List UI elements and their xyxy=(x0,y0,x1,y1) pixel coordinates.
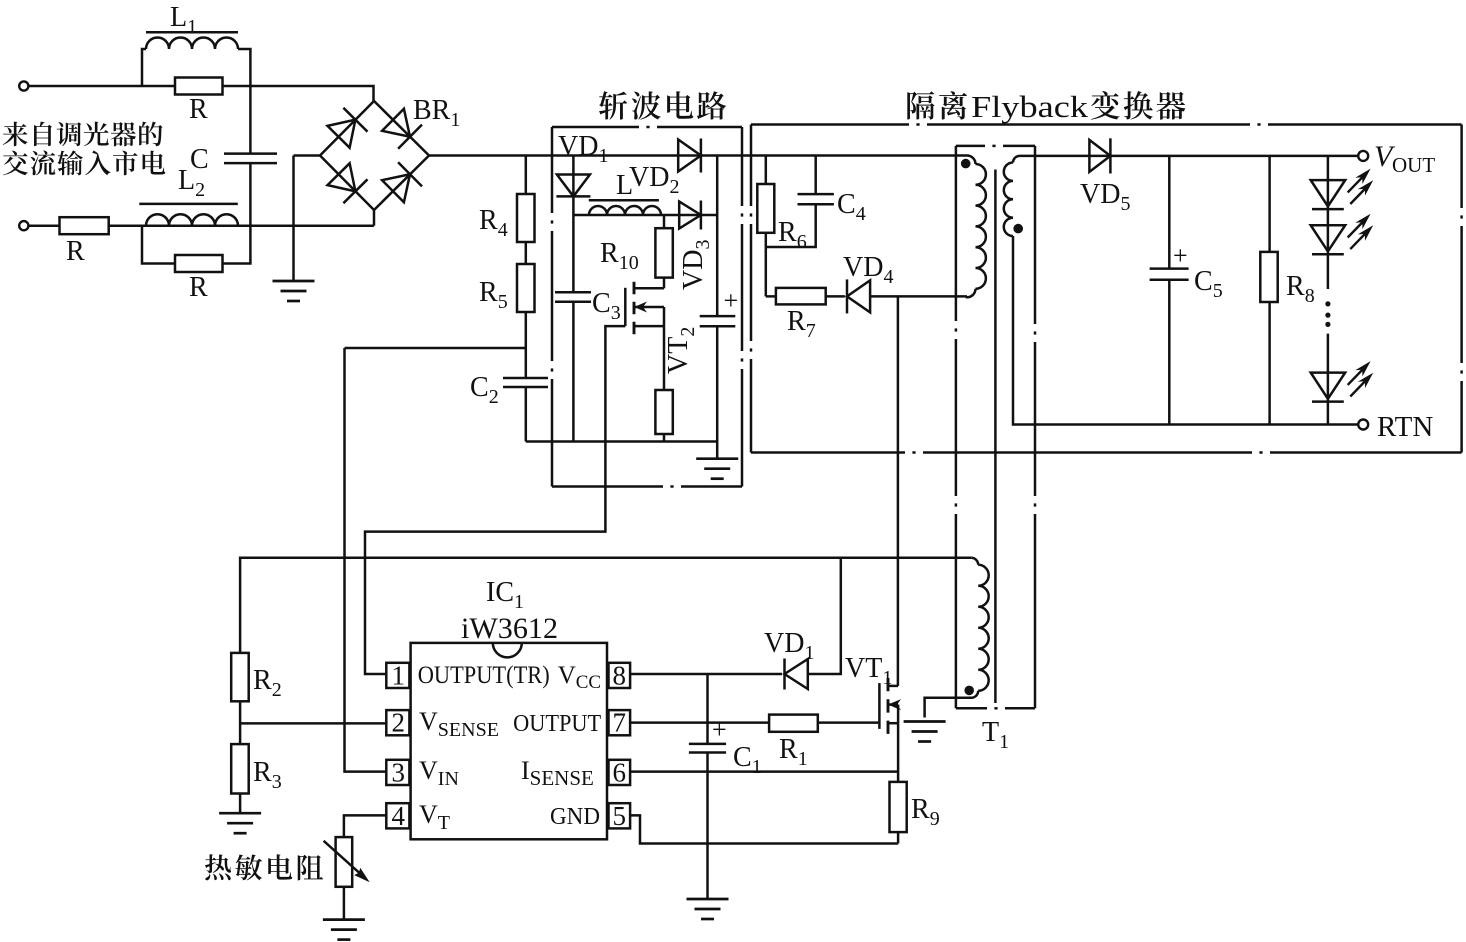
terminal AC input bottom xyxy=(19,221,28,230)
bridge diode bottom-left xyxy=(328,163,356,191)
pin 8 box xyxy=(609,663,631,688)
wire VD1 cathode node rail xyxy=(573,214,717,217)
LED D3 xyxy=(1311,373,1346,399)
label VD3 (rotated) xyxy=(678,240,714,290)
wire C2 to bottom rail xyxy=(525,387,528,442)
chopper circuit dash-dot box xyxy=(646,126,649,129)
wire secondary bottom / RTN bus xyxy=(1013,236,1358,425)
svg-text:+: + xyxy=(712,715,727,744)
terminal RTN xyxy=(1358,420,1368,430)
ground (C1) xyxy=(687,899,729,919)
svg-text:1: 1 xyxy=(392,660,406,690)
ground (auxiliary winding) xyxy=(904,722,946,742)
resistor R1 xyxy=(769,715,818,732)
resistor R7 xyxy=(766,295,845,298)
label VT2 (rotated) xyxy=(663,327,699,374)
capacitor C5 electrolytic xyxy=(1168,156,1171,269)
LED D1 xyxy=(1311,180,1346,206)
wire R5 to C2 xyxy=(525,312,528,378)
diode VD2 xyxy=(678,140,701,172)
diode VD3 xyxy=(679,202,701,229)
svg-text:OUTPUT: OUTPUT xyxy=(513,711,601,737)
pin 5 box xyxy=(609,803,631,828)
ground (bridge) xyxy=(273,281,315,301)
resistor R5 xyxy=(525,242,528,264)
resistor R2 xyxy=(231,653,249,701)
dot primary polarity xyxy=(961,159,971,169)
text flyback converter title xyxy=(907,91,934,119)
bridge diode top-left xyxy=(328,120,356,148)
IC U1 body xyxy=(411,643,607,839)
terminal VOUT xyxy=(1358,151,1368,161)
svg-text:OUT: OUT xyxy=(1392,153,1435,177)
IC notch xyxy=(493,643,522,658)
wire VD4 to primary xyxy=(870,295,967,298)
wire pin6 ISENSE xyxy=(630,770,898,773)
svg-text:Flyback: Flyback xyxy=(971,89,1089,124)
pin 4 box xyxy=(386,803,409,828)
svg-text:R: R xyxy=(189,94,208,125)
resistor R6 xyxy=(765,156,768,185)
diode VD1 (chopper) xyxy=(572,156,575,293)
bridge diode top-right xyxy=(382,109,410,137)
capacitor electrolytic (chopper output) xyxy=(716,156,719,317)
capacitor C1 electrolytic xyxy=(706,674,709,744)
inductor L1 xyxy=(146,31,238,34)
wire chopper bottom rail xyxy=(526,440,717,443)
wire secondary top rail to Vout xyxy=(1020,155,1359,158)
svg-text:7: 7 xyxy=(613,708,627,738)
svg-text:OUTPUT(TR): OUTPUT(TR) xyxy=(418,662,550,689)
resistor R (parallel with L2) xyxy=(142,226,250,264)
dot auxiliary polarity xyxy=(964,686,974,696)
svg-text:2: 2 xyxy=(392,708,406,738)
capacitor C4 xyxy=(814,156,817,195)
wire top AC line to bridge xyxy=(28,86,373,101)
wire bridge left to ground xyxy=(294,154,321,157)
resistor R4 xyxy=(525,156,528,195)
wire R2-R3 junction to pin2 xyxy=(239,701,242,744)
resistor R8 xyxy=(1268,156,1271,252)
bridge rectifier BR1 outline xyxy=(320,101,429,210)
wire pin4 to thermistor xyxy=(344,815,386,837)
svg-text:5: 5 xyxy=(613,801,627,831)
wire C3 to bottom rail xyxy=(572,302,575,442)
text AC input from dimmer xyxy=(3,122,28,147)
MOSFET VT1 xyxy=(878,683,881,729)
ground (thermistor) xyxy=(323,920,365,940)
ellipsis dots (LED string) xyxy=(1325,301,1330,306)
resistor R9 xyxy=(897,723,900,782)
inductor L (chopper) xyxy=(589,199,659,202)
LED D2 xyxy=(1311,225,1346,251)
auxiliary winding xyxy=(971,558,978,565)
capacitor C3 xyxy=(555,291,591,294)
wire bottom AC line xyxy=(28,224,374,227)
wire R3 to ground xyxy=(239,794,242,814)
wire pin5 GND return xyxy=(630,815,898,843)
wire thermistor to ground xyxy=(343,887,346,920)
text thermistor label xyxy=(205,854,231,880)
wire tap to VIN column xyxy=(345,347,526,350)
flyback converter dash-dot box xyxy=(916,123,919,126)
capacitor C xyxy=(224,152,277,155)
LED string wire xyxy=(1327,156,1330,289)
svg-text:4: 4 xyxy=(392,801,406,831)
pin 3 box xyxy=(386,760,409,785)
diode VD4 xyxy=(847,280,870,312)
wire main rail from bridge through chopper to transformer xyxy=(429,154,967,157)
diode VD1 (VCC) xyxy=(785,659,808,689)
transformer T1 dash-dot enclosure xyxy=(992,145,995,148)
wire pin7 OUTPUT to VT1 gate xyxy=(630,721,879,724)
transformer core line xyxy=(994,170,997,704)
wire pin8 VCC to VD1 xyxy=(630,673,782,676)
pin 7 box xyxy=(609,710,631,735)
terminal AC input top xyxy=(19,81,28,90)
svg-text:8: 8 xyxy=(613,660,627,690)
svg-text:GND: GND xyxy=(550,804,600,830)
secondary winding xyxy=(1013,156,1020,163)
svg-text:RTN: RTN xyxy=(1377,411,1433,443)
diode VD5 xyxy=(1089,140,1110,172)
wire VD1 anode up to aux rail xyxy=(808,558,841,674)
svg-text:R: R xyxy=(189,272,208,303)
pin 2 box xyxy=(386,710,409,735)
wire bridge bottom stub xyxy=(373,210,376,226)
capacitor C2 xyxy=(503,377,548,380)
svg-text:3: 3 xyxy=(392,757,406,787)
svg-text:R: R xyxy=(66,236,85,267)
text chopper circuit title xyxy=(599,91,627,119)
svg-text:+: + xyxy=(1173,241,1188,270)
resistor (VT2 source) xyxy=(663,326,666,390)
svg-text:6: 6 xyxy=(613,757,627,787)
pin 1 box xyxy=(386,663,409,688)
wire primary bottom to VT1 drain xyxy=(897,296,900,686)
resistor R10 xyxy=(663,215,666,228)
svg-text:+: + xyxy=(724,286,739,315)
resistor R (series, bottom line) xyxy=(60,217,109,234)
wire aux bottom to ground xyxy=(925,698,971,718)
dot secondary polarity xyxy=(1013,224,1023,234)
ground (R3) xyxy=(219,813,261,833)
wire aux feedback rail (R2 top) xyxy=(240,558,971,653)
bridge diode bottom-right xyxy=(382,174,410,202)
resistor R (parallel with L1) xyxy=(175,78,223,95)
pin 6 box xyxy=(609,760,631,785)
inductor L2 xyxy=(139,203,238,206)
MOSFET VT2 xyxy=(663,278,666,289)
thermistor RT xyxy=(336,837,353,887)
ground (chopper) xyxy=(696,459,738,479)
resistor R3 xyxy=(231,744,249,793)
primary winding xyxy=(967,156,976,165)
wire VIN feed to pin3 xyxy=(345,348,387,772)
svg-text:iW3612: iW3612 xyxy=(461,612,558,645)
wire VT2 gate to IC pin1 xyxy=(365,326,625,674)
